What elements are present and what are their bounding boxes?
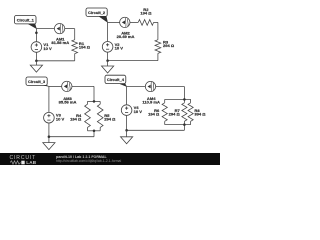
svg-text:20.49 mA: 20.49 mA (117, 34, 135, 39)
svg-text:294 Ω: 294 Ω (104, 116, 116, 121)
svg-text:110.9 mA: 110.9 mA (142, 99, 160, 104)
svg-text:Circuit_3: Circuit_3 (28, 79, 46, 84)
svg-text:194 Ω: 194 Ω (79, 45, 91, 50)
svg-text:10 V: 10 V (56, 117, 65, 122)
svg-text:194 Ω: 194 Ω (70, 116, 82, 121)
svg-text:10 V: 10 V (43, 46, 52, 51)
svg-text:LAB: LAB (26, 160, 37, 165)
svg-text:194 Ω: 194 Ω (148, 112, 160, 117)
svg-text:194 Ω: 194 Ω (140, 11, 152, 16)
svg-text:10 V: 10 V (134, 109, 143, 114)
svg-text:394 Ω: 394 Ω (194, 112, 206, 117)
svg-text:81.58 mA: 81.58 mA (51, 40, 69, 45)
svg-text:Circuit_2: Circuit_2 (88, 10, 106, 15)
svg-text:10 V: 10 V (115, 46, 124, 51)
svg-text:294 Ω: 294 Ω (169, 112, 181, 117)
svg-text:294 Ω: 294 Ω (163, 43, 175, 48)
svg-text:85.56 mA: 85.56 mA (59, 99, 77, 104)
svg-text:Circuit_4: Circuit_4 (107, 77, 125, 82)
svg-text:Circuit_1: Circuit_1 (17, 17, 35, 22)
